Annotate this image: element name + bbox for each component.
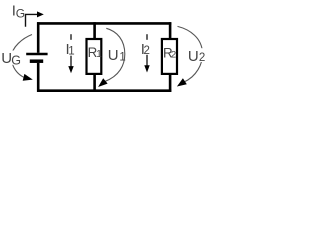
svg-text:2: 2 [171, 49, 176, 60]
svg-text:U: U [108, 47, 119, 64]
svg-text:1: 1 [68, 46, 74, 58]
svg-text:2: 2 [199, 52, 205, 64]
svg-text:U: U [188, 48, 199, 65]
svg-text:G: G [11, 54, 21, 68]
svg-text:G: G [16, 7, 25, 21]
svg-text:1: 1 [96, 49, 102, 60]
svg-text:1: 1 [119, 51, 125, 63]
svg-text:2: 2 [144, 45, 150, 57]
